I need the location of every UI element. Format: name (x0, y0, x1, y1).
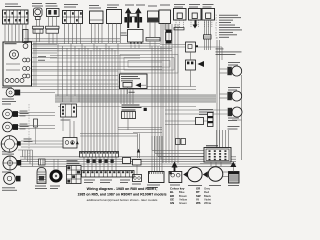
svg-text:Green: Green (179, 201, 187, 205)
svg-text:Wiring diagram - 1985 on R80 a: Wiring diagram - 1985 on R80 and R80RT, (87, 187, 158, 191)
svg-text:additional forum(s)/need botto: additional forum(s)/need bottom shown - … (87, 198, 158, 202)
svg-text:1985 on R65, and 1987 on R80RT: 1985 on R65, and 1987 on R80RT and R100R… (77, 193, 166, 197)
svg-text:WS: WS (196, 201, 201, 205)
svg-text:GN: GN (170, 201, 174, 205)
svg-text:White: White (204, 201, 212, 205)
